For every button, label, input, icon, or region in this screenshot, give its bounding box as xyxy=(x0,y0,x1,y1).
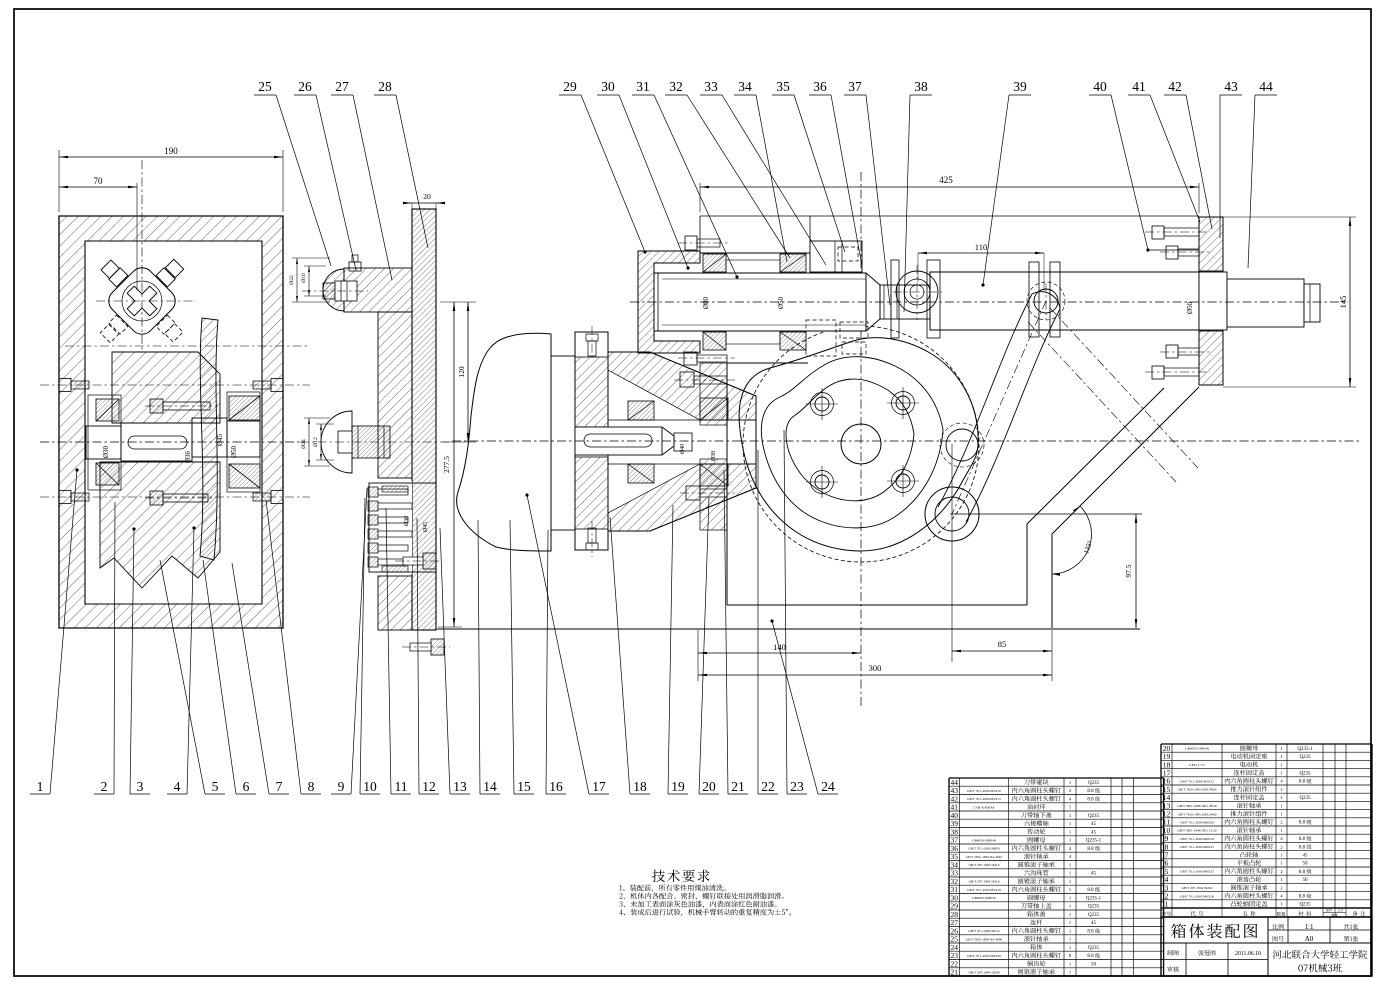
svg-text:1: 1 xyxy=(1069,871,1071,876)
svg-text:8.8: 8.8 xyxy=(1087,789,1094,794)
svg-text:1: 1 xyxy=(1069,805,1071,810)
svg-text:1: 1 xyxy=(1280,762,1282,767)
svg-text:1: 1 xyxy=(1280,861,1282,866)
middle view: cover flange hatched band xyxy=(344,268,412,312)
svg-text:22: 22 xyxy=(761,779,775,794)
svg-text:8.8: 8.8 xyxy=(1299,821,1306,826)
svg-text:GB/T 297-1994 30204: GB/T 297-1994 30204 xyxy=(1182,886,1213,890)
svg-text:110: 110 xyxy=(975,242,987,252)
svg-text:29: 29 xyxy=(563,79,577,94)
left view: wall bolts xyxy=(59,379,71,392)
right plate bolts xyxy=(1152,226,1164,239)
svg-text:2: 2 xyxy=(1069,788,1071,793)
svg-text:2: 2 xyxy=(1280,869,1282,874)
parts list table items 21-44 xyxy=(948,778,950,976)
svg-text:8.8: 8.8 xyxy=(1087,888,1094,893)
svg-text:31: 31 xyxy=(636,79,650,94)
svg-text:1: 1 xyxy=(1069,780,1071,785)
svg-text:GB/T 297-1994 32008: GB/T 297-1994 32008 xyxy=(969,971,1000,975)
svg-text:1: 1 xyxy=(1069,912,1071,917)
svg-text:GB6050-1988 48: GB6050-1988 48 xyxy=(1185,747,1209,751)
svg-text:Q235: Q235 xyxy=(1088,781,1100,786)
middle view: big vertical plate (item 28 cover) xyxy=(412,209,436,630)
svg-text:GB/T 70.1-2000 M512: GB/T 70.1-2000 M512 xyxy=(968,929,1000,933)
svg-text:GB/T 70.1-2000 M6X25: GB/T 70.1-2000 M6X25 xyxy=(1180,870,1214,874)
svg-text:Ø45: Ø45 xyxy=(216,433,224,446)
135 degree angle xyxy=(1052,506,1091,574)
svg-text:85: 85 xyxy=(998,639,1007,649)
svg-text:17: 17 xyxy=(592,779,606,794)
svg-text:Q235: Q235 xyxy=(1088,913,1100,918)
svg-text:39: 39 xyxy=(1013,79,1027,94)
svg-text:Q235: Q235 xyxy=(1299,796,1311,801)
svg-text:45: 45 xyxy=(1303,854,1309,859)
svg-text:8: 8 xyxy=(308,779,315,794)
svg-text:45: 45 xyxy=(1091,822,1097,827)
svg-text:Ø12: Ø12 xyxy=(313,437,319,447)
svg-text:1:1: 1:1 xyxy=(1305,923,1314,931)
svg-text:1: 1 xyxy=(1069,920,1071,925)
svg-text:Q235: Q235 xyxy=(1299,755,1311,760)
svg-text:1: 1 xyxy=(37,779,44,794)
left view: tapered roller bearings xyxy=(96,399,119,421)
right view dimensions xyxy=(699,183,701,212)
svg-text:8.8: 8.8 xyxy=(1299,780,1306,785)
camshaft body xyxy=(654,273,866,331)
cam centerlines xyxy=(860,172,862,706)
cam bolt holes xyxy=(815,397,829,411)
svg-text:1: 1 xyxy=(1069,821,1071,826)
svg-text:Ø45: Ø45 xyxy=(423,522,429,532)
svg-text:2: 2 xyxy=(1280,885,1282,890)
svg-text:1: 1 xyxy=(1069,937,1071,942)
left view dims: 190 / 70 xyxy=(58,150,60,212)
svg-text:8.8: 8.8 xyxy=(1087,797,1094,802)
flange clamp bolts xyxy=(586,334,598,341)
dim 20 plate width xyxy=(403,202,445,204)
right view: gearbox frame outline xyxy=(726,363,728,605)
svg-text:45: 45 xyxy=(1091,921,1097,926)
svg-text:34: 34 xyxy=(738,79,752,94)
svg-text:20: 20 xyxy=(702,779,716,794)
svg-text:1: 1 xyxy=(1069,895,1071,900)
svg-text:GB/T 70.1-2000 M6X20: GB/T 70.1-2000 M6X20 xyxy=(967,954,1001,958)
svg-text:18: 18 xyxy=(633,779,647,794)
left view: geneva cross coupling on upper shaft xyxy=(69,228,215,374)
svg-text:Ø50: Ø50 xyxy=(230,445,238,458)
svg-text:1: 1 xyxy=(1069,928,1071,933)
svg-text:97.5: 97.5 xyxy=(1124,564,1133,577)
svg-text:37: 37 xyxy=(848,79,862,94)
svg-text:8.8: 8.8 xyxy=(1299,870,1306,875)
svg-text:1: 1 xyxy=(1165,900,1169,909)
svg-text:8.8: 8.8 xyxy=(1087,929,1094,934)
end cap (item 29) xyxy=(638,251,700,353)
left view: gearbox housing section (item 24 box) xyxy=(59,216,283,628)
svg-text:A0: A0 xyxy=(1305,935,1314,943)
svg-text:GB/T 5801-1994 NA 4900: GB/T 5801-1994 NA 4900 xyxy=(966,938,1003,942)
svg-text:25: 25 xyxy=(258,79,272,94)
svg-text:Q235: Q235 xyxy=(1088,905,1100,910)
svg-text:120: 120 xyxy=(457,366,466,378)
left view: upper mass (worm wheel) hatched xyxy=(112,352,220,423)
svg-text:GB6050-1988 50: GB6050-1988 50 xyxy=(972,896,996,900)
svg-text:GB/T 70.1-2000 M850: GB/T 70.1-2000 M850 xyxy=(968,847,1000,851)
svg-text:1: 1 xyxy=(1280,803,1282,808)
left view: inner socket-head screws xyxy=(150,399,163,413)
svg-text:GB/T 70.1-2000 M6X25: GB/T 70.1-2000 M6X25 xyxy=(1180,845,1214,849)
svg-text:1: 1 xyxy=(1069,945,1071,950)
svg-text:16: 16 xyxy=(549,779,563,794)
connecting rod (item 27) xyxy=(1029,262,1039,337)
title block xyxy=(1161,917,1372,976)
svg-text:GB/T 70.1-2000 M5X15: GB/T 70.1-2000 M5X15 xyxy=(967,797,1001,801)
svg-text:1: 1 xyxy=(1069,829,1071,834)
middle view: top dome cap (item 25) with screw xyxy=(323,269,344,311)
svg-text:50: 50 xyxy=(1303,862,1309,867)
svg-text:26: 26 xyxy=(298,79,312,94)
svg-text:20: 20 xyxy=(423,192,431,201)
roller follower circles xyxy=(946,429,978,461)
svg-text:Q235-1: Q235-1 xyxy=(1297,747,1313,752)
svg-text:Ø50: Ø50 xyxy=(777,296,785,309)
svg-text:1: 1 xyxy=(1280,828,1282,833)
svg-text:41: 41 xyxy=(1132,79,1146,94)
svg-text:GB/T 5801-1996 NK1 28/20: GB/T 5801-1996 NK1 28/20 xyxy=(1177,804,1217,808)
svg-text:GB/T 70.1-2000 M5X12: GB/T 70.1-2000 M5X12 xyxy=(1180,780,1214,784)
svg-text:40: 40 xyxy=(1093,79,1107,94)
svg-text:8.8: 8.8 xyxy=(1299,837,1306,842)
svg-text:1: 1 xyxy=(1280,812,1282,817)
svg-text:Ø50: Ø50 xyxy=(1186,301,1194,314)
svg-text:CF22 1:7.5: CF22 1:7.5 xyxy=(1189,763,1205,767)
svg-text:1: 1 xyxy=(1069,904,1071,909)
technical requirements text xyxy=(652,870,665,882)
svg-text:6: 6 xyxy=(243,779,250,794)
svg-text:7: 7 xyxy=(276,779,283,794)
svg-text:8.8: 8.8 xyxy=(1299,895,1306,900)
svg-text:CSB 50X60X8: CSB 50X60X8 xyxy=(974,806,995,810)
svg-text:33: 33 xyxy=(704,79,718,94)
middle view: bottom screw xyxy=(431,639,444,655)
right view: electric motor outline (item 18) xyxy=(457,333,551,551)
middle view: right side screw xyxy=(423,553,436,569)
svg-text:Q235: Q235 xyxy=(1088,814,1100,819)
svg-text:13: 13 xyxy=(453,779,467,794)
svg-text:GB/T 297-1994 32916: GB/T 297-1994 32916 xyxy=(969,863,1000,867)
svg-text:50: 50 xyxy=(1091,962,1097,967)
svg-text:8.8: 8.8 xyxy=(1087,954,1094,959)
svg-text:44: 44 xyxy=(1259,79,1273,94)
svg-text:1: 1 xyxy=(1069,838,1071,843)
svg-text:1: 1 xyxy=(1280,853,1282,858)
svg-text:32: 32 xyxy=(669,79,683,94)
svg-text:14: 14 xyxy=(483,779,497,794)
svg-text:2011.06.10: 2011.06.10 xyxy=(1235,951,1261,957)
svg-text:38: 38 xyxy=(914,79,928,94)
middle view: screw stack cluster (items 9-16) xyxy=(366,481,412,574)
middle view: small diameter dims xyxy=(296,258,298,302)
svg-text:2: 2 xyxy=(1280,844,1282,849)
svg-text:GB/T 70.1-2000 M5X16: GB/T 70.1-2000 M5X16 xyxy=(967,888,1001,892)
svg-text:1: 1 xyxy=(1069,813,1071,818)
svg-text:2: 2 xyxy=(101,779,108,794)
svg-text:11: 11 xyxy=(395,779,408,794)
right view: worm shaft bearing housing xyxy=(608,352,756,531)
svg-text:GB/T 70.1-2000 M6X16: GB/T 70.1-2000 M6X16 xyxy=(1180,837,1214,841)
svg-text:8.8: 8.8 xyxy=(1087,847,1094,852)
svg-text:21: 21 xyxy=(950,968,958,977)
svg-text:GB/T 70.1-2000 M6X16: GB/T 70.1-2000 M6X16 xyxy=(1180,894,1214,898)
svg-text:35: 35 xyxy=(776,79,790,94)
svg-text:2: 2 xyxy=(1280,820,1282,825)
hidden detail below shaft xyxy=(806,320,836,356)
svg-text:1: 1 xyxy=(1280,902,1282,907)
svg-text:Ø22: Ø22 xyxy=(289,275,295,285)
svg-text:42: 42 xyxy=(1168,79,1182,94)
svg-text:1: 1 xyxy=(1280,877,1282,882)
svg-text:300: 300 xyxy=(869,663,882,673)
svg-text:1: 1 xyxy=(1069,879,1071,884)
svg-text:1: 1 xyxy=(1069,862,1071,867)
svg-text:Ø24: Ø24 xyxy=(301,439,307,449)
svg-text:277.5: 277.5 xyxy=(442,456,451,473)
svg-text:GB/T 297-1994 32916: GB/T 297-1994 32916 xyxy=(969,880,1000,884)
svg-text:4: 4 xyxy=(174,779,181,794)
svg-text:43: 43 xyxy=(1224,79,1238,94)
right view: motor flange plate xyxy=(575,332,608,550)
svg-text:28: 28 xyxy=(378,79,392,94)
right view: cam wheel (items 4/6) xyxy=(743,326,979,562)
svg-text:1: 1 xyxy=(1280,754,1282,759)
camshaft roller bearings xyxy=(703,254,726,272)
svg-text:Q235: Q235 xyxy=(1299,772,1311,777)
left view: bearing seats xyxy=(88,395,121,490)
svg-text:10: 10 xyxy=(363,779,377,794)
svg-text:Ø36: Ø36 xyxy=(184,450,192,463)
svg-text:21: 21 xyxy=(731,779,745,794)
svg-text:1: 1 xyxy=(1069,961,1071,966)
svg-text:Ø10: Ø10 xyxy=(301,273,307,283)
svg-text:1: 1 xyxy=(1069,887,1071,892)
svg-text:145: 145 xyxy=(1338,296,1348,309)
svg-text:Q235-1: Q235-1 xyxy=(1086,839,1102,844)
svg-text:GB/T 5801-1996 NK1 12/20: GB/T 5801-1996 NK1 12/20 xyxy=(1177,829,1217,833)
svg-text:1: 1 xyxy=(1280,746,1282,751)
svg-text:GB/T 70.1-2000 M6X20: GB/T 70.1-2000 M6X20 xyxy=(1180,821,1214,825)
svg-text:Q235: Q235 xyxy=(1088,946,1100,951)
left view: lower mass hatched with break lines xyxy=(100,462,220,588)
svg-text:36: 36 xyxy=(813,79,827,94)
svg-text:GB/T 70.1-2000 M5X10: GB/T 70.1-2000 M5X10 xyxy=(967,789,1001,793)
svg-text:1: 1 xyxy=(1069,970,1071,975)
svg-text:5: 5 xyxy=(212,779,219,794)
svg-text:Ø30: Ø30 xyxy=(102,445,110,458)
svg-text:50: 50 xyxy=(1303,878,1309,883)
parts list table items 1-20 xyxy=(1160,744,1162,908)
frame left wall bolts xyxy=(685,236,697,250)
svg-text:45: 45 xyxy=(1091,830,1097,835)
svg-text:425: 425 xyxy=(939,175,953,185)
svg-text:15: 15 xyxy=(517,779,531,794)
svg-text:Ø40: Ø40 xyxy=(680,444,686,454)
svg-text:27: 27 xyxy=(335,79,349,94)
svg-text:GB/T 7810-1995 AXK 4060: GB/T 7810-1995 AXK 4060 xyxy=(1178,812,1217,816)
svg-text:19: 19 xyxy=(671,779,685,794)
svg-text:1: 1 xyxy=(1280,787,1282,792)
middle view: mid dome cap with screw xyxy=(321,411,352,473)
svg-text:3: 3 xyxy=(137,779,144,794)
svg-text:GB/T 5801-1994 NA 4901: GB/T 5801-1994 NA 4901 xyxy=(966,855,1003,859)
svg-text:1: 1 xyxy=(1280,795,1282,800)
needle bearing block on top (items 33-35) xyxy=(810,241,862,272)
svg-text:30: 30 xyxy=(601,79,615,94)
right view: right bearing plate (items 40-44) xyxy=(1199,217,1223,271)
parts table header row xyxy=(1160,908,1162,917)
svg-text:GB/T 7810-1995 AXK 4060: GB/T 7810-1995 AXK 4060 xyxy=(1178,788,1217,792)
support boss and bracket xyxy=(891,260,899,338)
svg-text:1: 1 xyxy=(1280,771,1282,776)
svg-text:Q235-1: Q235-1 xyxy=(1086,896,1102,901)
svg-text:45: 45 xyxy=(1091,872,1097,877)
left view: main shaft with keyway xyxy=(86,426,121,459)
svg-text:8.8: 8.8 xyxy=(1299,845,1306,850)
svg-text:Q235: Q235 xyxy=(1299,903,1311,908)
dim 277.5 and 120 xyxy=(453,302,455,627)
svg-text:23: 23 xyxy=(790,779,804,794)
svg-text:Ø80: Ø80 xyxy=(702,296,710,309)
right view: worm shaft end with keyway xyxy=(575,427,662,455)
svg-text:12: 12 xyxy=(422,779,436,794)
svg-text:9: 9 xyxy=(338,779,345,794)
svg-text:190: 190 xyxy=(164,146,178,156)
svg-text:24: 24 xyxy=(821,779,835,794)
left view: connecting-rod seen edge-on (hatched curved strip) xyxy=(200,318,218,560)
output shaft end xyxy=(1199,272,1227,330)
svg-text:Ø30: Ø30 xyxy=(404,516,410,526)
svg-text:70: 70 xyxy=(94,176,104,186)
svg-text:GB6050-1988 48: GB6050-1988 48 xyxy=(972,839,996,843)
